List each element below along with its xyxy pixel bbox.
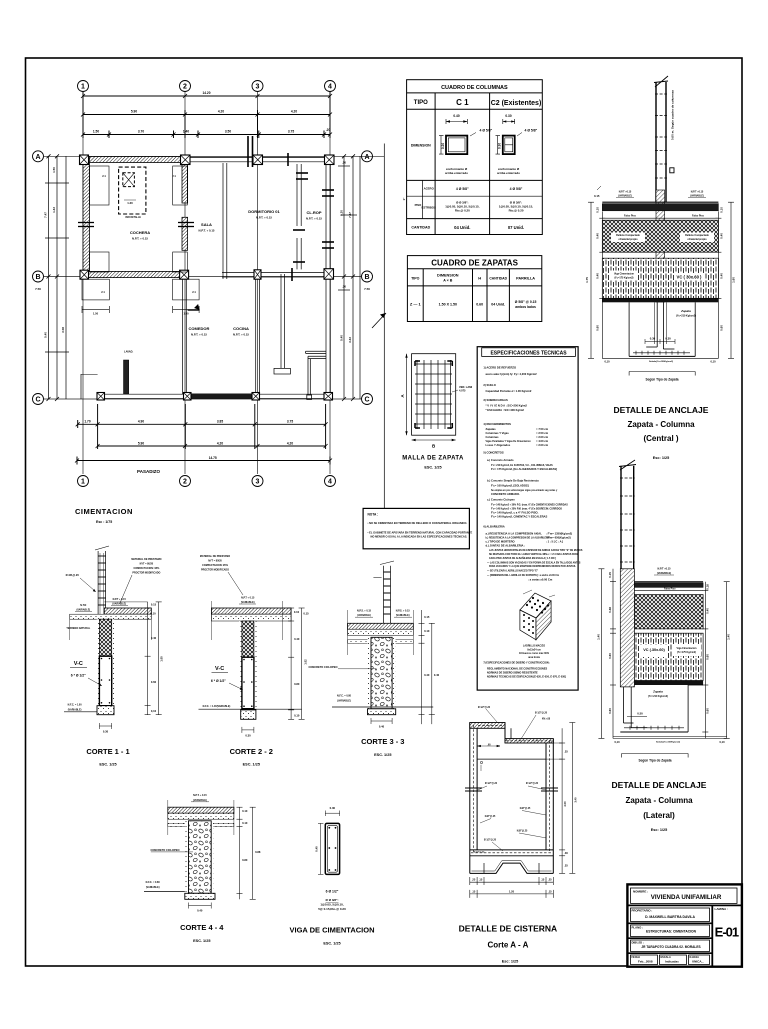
svg-text:Se emplea en pre sobrecargas v: Se emplea en pre sobrecargas vigas pre-a… bbox=[491, 489, 558, 492]
svg-text:Zapata: Zapata bbox=[680, 309, 691, 313]
svg-text:F'c= 140 Kg/cm2, CIMENTAC Y: F'c= 140 Kg/cm2, CIMENTAC Y ESCALERAS bbox=[491, 514, 547, 518]
svg-text:1.43: 1.43 bbox=[52, 207, 56, 213]
svg-text:N.P.T. + 0.15: N.P.T. + 0.15 bbox=[233, 333, 249, 337]
svg-text:acero adec fy(min) fy: Fy=: acero adec fy(min) fy: Fy= 4,200 Kg/cm2 bbox=[486, 372, 538, 376]
svg-text:A × B: A × B bbox=[443, 279, 453, 283]
svg-text:CUADRO DE ZAPATAS: CUADRO DE ZAPATAS bbox=[431, 259, 518, 268]
svg-text:4) RECUBRIMIENTOS: 4) RECUBRIMIENTOS bbox=[483, 422, 511, 426]
svg-text:0.15: 0.15 bbox=[151, 603, 157, 607]
svg-text:1: 1 bbox=[81, 479, 85, 486]
svg-text:5.40: 5.40 bbox=[44, 332, 48, 338]
svg-text:ESPECIFICACIONES TECNICAS: ESPECIFICACIONES TECNICAS bbox=[490, 350, 567, 356]
svg-text:(VARIABLE): (VARIABLE) bbox=[396, 614, 410, 617]
svg-text:0.40: 0.40 bbox=[706, 608, 710, 614]
svg-text:0.16: 0.16 bbox=[706, 584, 710, 590]
svg-text:c.) Concreto Ciclopeo: c.) Concreto Ciclopeo bbox=[487, 498, 515, 502]
svg-text:0.40: 0.40 bbox=[151, 636, 157, 640]
svg-text:18 Huecos como max 30%: 18 Huecos como max 30% bbox=[519, 652, 550, 655]
svg-text:3.70: 3.70 bbox=[138, 130, 144, 134]
svg-text:= 2.00 cm: = 2.00 cm bbox=[536, 435, 549, 439]
svg-text:4 Ø 5/8": 4 Ø 5/8" bbox=[456, 187, 469, 191]
svg-text:6 Ø 1/2": 6 Ø 1/2" bbox=[326, 890, 339, 894]
svg-text:VIVIENDA UNIFAMILIAR: VIVIENDA UNIFAMILIAR bbox=[651, 894, 722, 901]
svg-text:.30: .30 bbox=[564, 851, 568, 855]
svg-text:ESC. 1/25: ESC. 1/25 bbox=[99, 763, 116, 767]
svg-text:14.20: 14.20 bbox=[203, 91, 211, 95]
svg-text:Falso Piso: Falso Piso bbox=[692, 215, 704, 218]
svg-text:Según Tipo de Zapata: Según Tipo de Zapata bbox=[645, 378, 678, 382]
svg-text:Esc: 1/25: Esc: 1/25 bbox=[502, 960, 518, 964]
svg-text:CONCRETO CICLOPEO: CONCRETO CICLOPEO bbox=[150, 848, 179, 852]
svg-text:0.30: 0.30 bbox=[505, 114, 511, 118]
svg-text:PLANO :: PLANO : bbox=[632, 926, 644, 930]
svg-text:VIGA DE CIMENTACION: VIGA DE CIMENTACION bbox=[289, 926, 374, 935]
svg-text:4.20: 4.20 bbox=[287, 441, 293, 445]
svg-text:Según Tipo de Zapata: Según Tipo de Zapata bbox=[638, 759, 671, 763]
svg-text:Rto.@ 0.20: Rto.@ 0.20 bbox=[455, 209, 470, 213]
svg-text:CONCRETO CICLOPEO: CONCRETO CICLOPEO bbox=[308, 665, 337, 669]
svg-text:5.20: 5.20 bbox=[340, 210, 344, 216]
svg-text:N.P.T +0.15: N.P.T +0.15 bbox=[691, 191, 704, 194]
svg-text:ESTRIBOS: ESTRIBOS bbox=[422, 206, 436, 210]
svg-text:Relleno Compactado: Relleno Compactado bbox=[685, 234, 709, 237]
svg-text:: a varias x0.00 Cm: : a varias x0.00 Cm bbox=[528, 578, 553, 582]
svg-text:N.HOJA: N.HOJA bbox=[690, 956, 700, 959]
svg-text:0.10: 0.10 bbox=[596, 207, 600, 213]
svg-text:H: H bbox=[478, 276, 481, 281]
svg-text:N.P.T + 0.15: N.P.T + 0.15 bbox=[113, 598, 127, 601]
svg-text:6 * Ø 1/2": 6 * Ø 1/2" bbox=[71, 674, 86, 678]
svg-text:LAMINA :: LAMINA : bbox=[715, 907, 728, 911]
svg-text:VER. LAMI: VER. LAMI bbox=[459, 385, 472, 389]
svg-text:C: C bbox=[364, 397, 369, 404]
svg-text:7.50: 7.50 bbox=[364, 287, 370, 291]
svg-text:DORMITORIO 01: DORMITORIO 01 bbox=[248, 209, 280, 214]
svg-text:Corte A - A: Corte A - A bbox=[487, 941, 528, 950]
svg-text:N.F.C. = 1.00: N.F.C. = 1.00 bbox=[68, 704, 83, 707]
svg-text:N.T.N: N.T.N bbox=[80, 604, 86, 607]
svg-text:VC ( 30x.60 ): VC ( 30x.60 ) bbox=[677, 275, 703, 280]
svg-text:JR TARAPOTO CUADRA 02. MORALES: JR TARAPOTO CUADRA 02. MORALES bbox=[641, 945, 700, 949]
svg-text:Rto.@ 0.20: Rto.@ 0.20 bbox=[509, 209, 524, 213]
svg-text:0.20: 0.20 bbox=[441, 143, 445, 149]
svg-text:0.10: 0.10 bbox=[150, 612, 156, 616]
svg-text:COMPACTACION: 95%: COMPACTACION: 95% bbox=[202, 564, 229, 567]
svg-text:3.75: 3.75 bbox=[287, 419, 293, 423]
svg-text:.15: .15 bbox=[548, 889, 552, 893]
svg-text:CIMENTACION: CIMENTACION bbox=[75, 507, 133, 516]
svg-text:CORTE 4 - 4: CORTE 4 - 4 bbox=[180, 923, 224, 932]
svg-text:0,10: 0,10 bbox=[294, 714, 300, 718]
svg-text:.20: .20 bbox=[342, 161, 347, 165]
svg-text:area bruta: area bruta bbox=[528, 656, 540, 659]
svg-text:4.20: 4.20 bbox=[218, 110, 224, 114]
svg-text:Capacidad Portante σ= 1.00: Capacidad Portante σ= 1.00 Kg/cm2 bbox=[486, 389, 532, 393]
svg-text:0.60: 0.60 bbox=[151, 680, 157, 684]
svg-text:0.15: 0.15 bbox=[424, 615, 430, 619]
svg-text:0.40: 0.40 bbox=[424, 673, 430, 677]
svg-text:1.02: 1.02 bbox=[304, 659, 308, 665]
svg-text:DETALLE DE ANCLAJE: DETALLE DE ANCLAJE bbox=[612, 780, 707, 790]
svg-text:F'c= 100 Kg/cm2, [SOLADOS]: F'c= 100 Kg/cm2, [SOLADOS] bbox=[491, 483, 529, 487]
svg-text:arriba enterrado: arriba enterrado bbox=[445, 171, 468, 175]
svg-text:ambos lados: ambos lados bbox=[515, 305, 536, 309]
svg-text:Feb...2008: Feb...2008 bbox=[638, 960, 653, 964]
svg-text:NOTA :: NOTA : bbox=[368, 513, 379, 517]
svg-text:(VARIABLE): (VARIABLE) bbox=[76, 609, 90, 612]
svg-text:Z — 1: Z — 1 bbox=[410, 302, 422, 307]
svg-text:CADA PISO JUNTAS DE ALBAÑILERI: CADA PISO JUNTAS DE ALBAÑILERIA EN ESCAL… bbox=[489, 557, 556, 560]
svg-text:CANTIDAD: CANTIDAD bbox=[411, 226, 430, 230]
svg-text:N.P.S. + 0.15: N.P.S. + 0.15 bbox=[357, 610, 372, 613]
svg-text:0.60: 0.60 bbox=[706, 654, 710, 660]
svg-text:VER DETALLE: VER DETALLE bbox=[125, 216, 141, 219]
svg-text:07 Unid.: 07 Unid. bbox=[508, 225, 524, 230]
svg-text:.25: .25 bbox=[564, 750, 568, 754]
svg-text:: 1 : 5 [ C : A ]: : 1 : 5 [ C : A ] bbox=[546, 540, 563, 544]
svg-text:2) SUELO: 2) SUELO bbox=[483, 383, 495, 387]
svg-text:VC (.30x.60): VC (.30x.60) bbox=[643, 648, 665, 652]
svg-text:0.40: 0.40 bbox=[596, 233, 600, 239]
svg-text:3.50: 3.50 bbox=[225, 130, 231, 134]
svg-text:(f'c=210 Kg/cm2): (f'c=210 Kg/cm2) bbox=[648, 695, 668, 698]
svg-text:.25: .25 bbox=[548, 878, 552, 882]
svg-text:CL.ROP: CL.ROP bbox=[306, 210, 321, 215]
svg-text:a.) Concreto Armado: a.) Concreto Armado bbox=[487, 458, 514, 462]
svg-text:F'c= 140 Kg/cm2, c a 4" F: F'c= 140 Kg/cm2, c a 4" FALSO PISO. bbox=[491, 510, 539, 514]
svg-text:Esc: 1/25: Esc: 1/25 bbox=[653, 456, 669, 460]
svg-text:ESC. 1/25: ESC. 1/25 bbox=[323, 942, 340, 946]
svg-text:F'c= 175 Kg/cm2, [En ALIGER: F'c= 175 Kg/cm2, [En ALIGERADOS Y ESCALE… bbox=[491, 467, 557, 471]
svg-text:0.88: 0.88 bbox=[255, 850, 261, 854]
svg-text:NYT = 80/20: NYT = 80/20 bbox=[208, 560, 222, 563]
svg-text:COCINA: COCINA bbox=[233, 326, 249, 331]
svg-text:Ø 1/2"@.20: Ø 1/2"@.20 bbox=[526, 783, 539, 785]
svg-text:3.40: 3.40 bbox=[573, 797, 577, 803]
svg-text:— [DIMENSION DEL LADRILLO DE S: — [DIMENSION DEL LADRILLO DE SOPORTE] : … bbox=[487, 574, 559, 577]
svg-text:— LAS COLUMNAS SON VACIADAS Y: — LAS COLUMNAS SON VACIADAS Y EN FORMA D… bbox=[487, 561, 581, 564]
svg-text:0.30: 0.30 bbox=[650, 337, 656, 341]
svg-text:0.30: 0.30 bbox=[665, 337, 671, 341]
svg-text:4 Ø 5/8": 4 Ø 5/8" bbox=[525, 129, 538, 133]
svg-text:0.15: 0.15 bbox=[303, 612, 309, 616]
svg-text:B: B bbox=[364, 274, 369, 281]
svg-text:(Central ): (Central ) bbox=[643, 434, 678, 443]
svg-text:0.80: 0.80 bbox=[294, 682, 300, 686]
svg-text:.25: .25 bbox=[472, 878, 476, 882]
svg-text:(VARIABLE): (VARIABLE) bbox=[337, 700, 351, 703]
svg-text:b.) RESISTENCIA A LA COMPRESIO: b.) RESISTENCIA A LA COMPRESION DE LA AL… bbox=[486, 537, 551, 540]
svg-text:7) ESPECIFICACIONES DE DISEÑ: 7) ESPECIFICACIONES DE DISEÑO Y CONSTRUC… bbox=[483, 662, 550, 665]
svg-text:0.30: 0.30 bbox=[245, 734, 251, 738]
svg-text:7.47: 7.47 bbox=[44, 212, 48, 218]
svg-text:N.P.T + 0.15: N.P.T + 0.15 bbox=[241, 597, 255, 600]
svg-text:NYT = 80/20: NYT = 80/20 bbox=[140, 563, 154, 566]
svg-text:3.08: 3.08 bbox=[61, 327, 65, 333]
svg-text:Ø 3/8,@.20: Ø 3/8,@.20 bbox=[66, 573, 80, 577]
svg-text:(VARIABLE): (VARIABLE) bbox=[690, 195, 704, 198]
svg-text:2.1: 2.1 bbox=[102, 174, 106, 178]
svg-text:* V I V I E N D A: * V I V I E N D A : S/C=250 Kg/m2 bbox=[486, 404, 528, 408]
svg-text:N.F.C. = 1.00(VARIABLE): N.F.C. = 1.00(VARIABLE) bbox=[203, 705, 231, 708]
svg-text:N.P.T. + 0.15: N.P.T. + 0.15 bbox=[306, 217, 322, 221]
svg-text:3: 3 bbox=[256, 479, 260, 486]
svg-text:ESTRUCTURAS: CIMENTACION: ESTRUCTURAS: CIMENTACION bbox=[646, 930, 697, 934]
svg-text:1.20: 1.20 bbox=[509, 889, 515, 893]
svg-text:14.75: 14.75 bbox=[209, 456, 217, 460]
svg-text:0.60 m. Según cuadro de co: 0.60 m. Según cuadro de columnas bbox=[671, 90, 675, 141]
svg-text:1: 1 bbox=[81, 84, 85, 91]
svg-text:0.80: 0.80 bbox=[242, 858, 248, 862]
svg-text:N.P.T +0.15: N.P.T +0.15 bbox=[657, 568, 671, 571]
svg-text:1.50 X 1.50: 1.50 X 1.50 bbox=[439, 303, 457, 307]
svg-text:V-C: V-C bbox=[74, 661, 83, 667]
svg-text:5.90: 5.90 bbox=[138, 441, 144, 445]
svg-text:0.60: 0.60 bbox=[596, 325, 600, 331]
svg-text:0.40: 0.40 bbox=[720, 273, 724, 279]
svg-text:c/material propio: c/material propio bbox=[618, 238, 638, 241]
svg-text:A: A bbox=[35, 154, 40, 161]
svg-text:0,10: 0,10 bbox=[604, 360, 610, 364]
svg-text:(VARIABLE): (VARIABLE) bbox=[68, 709, 82, 712]
svg-text:1.40: 1.40 bbox=[597, 634, 601, 640]
svg-text:(f'c=175 Kg/cm2): (f'c=175 Kg/cm2) bbox=[615, 277, 634, 280]
svg-text:C 1: C 1 bbox=[456, 98, 469, 107]
svg-text:1.70: 1.70 bbox=[84, 419, 90, 423]
svg-text:Ø Ø 3/8":: Ø Ø 3/8": bbox=[326, 898, 339, 902]
svg-text:0.60: 0.60 bbox=[720, 325, 724, 331]
svg-text:0,10: 0,10 bbox=[151, 709, 157, 713]
svg-text:9x13x24 cm: 9x13x24 cm bbox=[527, 648, 540, 651]
svg-text:1.40: 1.40 bbox=[727, 634, 731, 640]
svg-text:0.40: 0.40 bbox=[434, 673, 440, 677]
svg-text:0.60: 0.60 bbox=[476, 303, 483, 307]
svg-text:5) CONCRETOS: 5) CONCRETOS bbox=[483, 451, 503, 455]
svg-text:N.F.C. = 0.80: N.F.C. = 0.80 bbox=[146, 881, 161, 884]
svg-text:1.20: 1.20 bbox=[127, 201, 133, 205]
svg-text:D. MAXWELL BARTRA DAVILA: D. MAXWELL BARTRA DAVILA bbox=[645, 915, 695, 919]
svg-text:Falso Piso: Falso Piso bbox=[664, 589, 676, 591]
svg-text:LAS JUNTAS HORIZONTALES DE ESP: LAS JUNTAS HORIZONTALES DE ESPESOR DE AM… bbox=[489, 549, 583, 552]
svg-text:2.00: 2.00 bbox=[563, 801, 567, 807]
svg-text:ESC. 1/25: ESC. 1/25 bbox=[243, 763, 260, 767]
svg-text:N.Ø"@.25: N.Ø"@.25 bbox=[485, 816, 496, 818]
svg-text:Zapata: Zapata bbox=[652, 690, 663, 694]
svg-text:0.40: 0.40 bbox=[379, 725, 385, 729]
svg-text:MATERIAL DE PRESTAMO: MATERIAL DE PRESTAMO bbox=[200, 555, 230, 558]
svg-text:ESCALA: ESCALA bbox=[661, 956, 671, 959]
svg-text:(VARIABLE): (VARIABLE) bbox=[357, 614, 371, 617]
svg-text:CORTE 2 - 2: CORTE 2 - 2 bbox=[230, 747, 273, 756]
svg-text:Columnas Y Vigas: Columnas Y Vigas bbox=[486, 431, 510, 435]
svg-text:= 7.50 cm: = 7.50 cm bbox=[536, 427, 549, 431]
svg-text:2: 2 bbox=[183, 84, 187, 91]
svg-text:Esc : 1/75: Esc : 1/75 bbox=[96, 520, 112, 524]
svg-text:MATERIAL DE PRESTAMO: MATERIAL DE PRESTAMO bbox=[131, 558, 161, 561]
svg-text:CUADRO DE COLUMNAS: CUADRO DE COLUMNAS bbox=[441, 85, 508, 91]
svg-text:0.30: 0.30 bbox=[498, 143, 502, 149]
svg-text:(VARIABLE): (VARIABLE) bbox=[618, 195, 632, 198]
svg-text:Ø 5/8" @ 0.15: Ø 5/8" @ 0.15 bbox=[515, 300, 537, 304]
svg-text:N.P.T. + 0.15: N.P.T. + 0.15 bbox=[191, 333, 207, 337]
svg-text:— SE UTILIZARA LADRILLO MACIZO: — SE UTILIZARA LADRILLO MACIZO TIPO "E" bbox=[487, 570, 538, 573]
svg-text:1.50: 1.50 bbox=[183, 312, 189, 316]
svg-text:1.50: 1.50 bbox=[93, 130, 99, 134]
svg-text:A: A bbox=[364, 154, 369, 161]
svg-text:0.40: 0.40 bbox=[720, 233, 724, 239]
svg-text:Ø 1/2"@.20: Ø 1/2"@.20 bbox=[484, 840, 497, 842]
svg-text:04 Unid.: 04 Unid. bbox=[491, 303, 505, 307]
svg-text:0.10: 0.10 bbox=[242, 809, 248, 813]
svg-text:a.) RESISTENCIA A LA COMPRE: a.) RESISTENCIA A LA COMPRESION AXIAL bbox=[486, 532, 543, 536]
svg-text:Relleno Compactado: Relleno Compactado bbox=[616, 234, 640, 237]
svg-text:4.20: 4.20 bbox=[291, 110, 297, 114]
svg-text:Vigas Peraltadas Y Vigas De Ci: Vigas Peraltadas Y Vigas De Cimentacion bbox=[486, 440, 532, 443]
svg-text:FECHA: FECHA bbox=[632, 956, 641, 959]
svg-text:2: 2 bbox=[183, 479, 187, 486]
svg-text:1@0.05, 5@0.10,: 1@0.05, 5@0.10, bbox=[320, 903, 344, 907]
svg-text:(VARIABLE): (VARIABLE) bbox=[657, 572, 671, 575]
svg-text:LAVAD.: LAVAD. bbox=[124, 350, 134, 354]
svg-text:• NO SE CIMENTARA EN TERR: • NO SE CIMENTARA EN TERRENO DE RELLENO … bbox=[368, 521, 468, 525]
svg-text:1°: 1° bbox=[402, 198, 406, 201]
svg-text:4 Ø 5/8": 4 Ø 5/8" bbox=[480, 129, 493, 133]
svg-text:: F'm= 1350(Kg/cm2): : F'm= 1350(Kg/cm2) bbox=[546, 532, 572, 536]
svg-text:(VARIABLE): (VARIABLE) bbox=[112, 603, 126, 606]
svg-text:7.50: 7.50 bbox=[35, 287, 41, 291]
svg-text:5.90: 5.90 bbox=[131, 110, 137, 114]
svg-text:3) SOBRECARGAS: 3) SOBRECARGAS bbox=[483, 398, 508, 402]
svg-text:SALA: SALA bbox=[201, 222, 212, 227]
svg-text:0.10: 0.10 bbox=[294, 610, 300, 614]
svg-text:N.Ø"@.25: N.Ø"@.25 bbox=[517, 831, 528, 833]
svg-text:Ø 1/2"@.20: Ø 1/2"@.20 bbox=[474, 851, 485, 853]
svg-text:1.40: 1.40 bbox=[183, 130, 189, 134]
svg-text:0.10: 0.10 bbox=[242, 821, 248, 825]
svg-text:Ø 1/2"@.20: Ø 1/2"@.20 bbox=[478, 707, 491, 709]
svg-text:0.10: 0.10 bbox=[720, 207, 724, 213]
svg-text:PARRILLA: PARRILLA bbox=[516, 277, 535, 281]
svg-text:0.30: 0.30 bbox=[330, 806, 336, 810]
svg-text:3: 3 bbox=[256, 84, 260, 91]
svg-text:5@ 0.15,Rto.@ 0.20: 5@ 0.15,Rto.@ 0.20 bbox=[318, 907, 346, 911]
svg-text:4.20: 4.20 bbox=[217, 441, 223, 445]
svg-text:3.75: 3.75 bbox=[288, 130, 294, 134]
svg-text:0.30: 0.30 bbox=[103, 730, 109, 734]
svg-text:ACERO: ACERO bbox=[424, 187, 435, 191]
svg-text:Zapatas: Zapatas bbox=[486, 427, 497, 431]
svg-text:0.10: 0.10 bbox=[424, 629, 430, 633]
svg-text:Losas Y Aligerados: Losas Y Aligerados bbox=[486, 443, 511, 447]
svg-text:= 4.00 cm: = 4.00 cm bbox=[536, 439, 549, 443]
svg-text:3.43: 3.43 bbox=[348, 337, 352, 343]
svg-text:.30: .30 bbox=[342, 285, 347, 289]
svg-text:N.P.S. + 0.15: N.P.S. + 0.15 bbox=[396, 610, 411, 613]
svg-text:• EL GABINETE DE APOYARA: • EL GABINETE DE APOYARA EN TERRENO NATU… bbox=[368, 531, 473, 535]
svg-text:5.40: 5.40 bbox=[340, 335, 344, 341]
svg-text:.15: .15 bbox=[472, 889, 476, 893]
svg-text:TERRENO NATURAL: TERRENO NATURAL bbox=[66, 627, 90, 630]
svg-text:(VARIABLE): (VARIABLE) bbox=[193, 799, 207, 802]
svg-text:NV.+.08: NV.+.08 bbox=[542, 719, 551, 721]
svg-text:C2 (Existentes): C2 (Existentes) bbox=[491, 100, 542, 107]
svg-text:UNICA...: UNICA... bbox=[692, 960, 704, 964]
svg-text:COMPACTACION: 95%: COMPACTACION: 95% bbox=[134, 567, 161, 570]
svg-text:b.) Concreto Simple De Baja: b.) Concreto Simple De Baja Resistencia bbox=[487, 478, 539, 482]
svg-text:CORTE 1 - 1: CORTE 1 - 1 bbox=[86, 747, 129, 756]
svg-text:N.P.T. + 0.15: N.P.T. + 0.15 bbox=[199, 229, 215, 233]
svg-text:F'c= 140 Kg/cm2 + 25% P.M. (ma: F'c= 140 Kg/cm2 + 25% P.M. (max. 4") En … bbox=[491, 507, 562, 510]
svg-text:= 2.50 cm: = 2.50 cm bbox=[536, 431, 549, 435]
svg-text:= 2.00 cm: = 2.00 cm bbox=[536, 443, 549, 447]
svg-text:0.48: 0.48 bbox=[608, 607, 612, 613]
svg-text:2.1: 2.1 bbox=[192, 290, 196, 294]
svg-text:Zapata - Columna: Zapata - Columna bbox=[625, 796, 693, 805]
svg-text:0,10: 0,10 bbox=[719, 740, 725, 744]
svg-text:F'c= 140 Kg/cm2 + 30% P.G. (ma: F'c= 140 Kg/cm2 + 30% P.G. (max. 6") En … bbox=[491, 503, 568, 506]
svg-text:1) ACERO DE REFUERZO: 1) ACERO DE REFUERZO bbox=[483, 366, 516, 370]
svg-text:0.40: 0.40 bbox=[453, 114, 459, 118]
svg-text:SE REVISARA CON TODO EL LARGO: SE REVISARA CON TODO EL LARGO VERTICAL M… bbox=[489, 553, 579, 556]
svg-text:6 * Ø 1/2": 6 * Ø 1/2" bbox=[211, 679, 226, 683]
svg-text:DETALLE DE ANCLAJE: DETALLE DE ANCLAJE bbox=[614, 405, 709, 415]
svg-text:N.P.T +0.15: N.P.T +0.15 bbox=[619, 191, 632, 194]
svg-text:2.1: 2.1 bbox=[172, 174, 176, 178]
svg-text:PROCTOR MODIFICADO: PROCTOR MODIFICADO bbox=[132, 572, 160, 575]
svg-text:0.50: 0.50 bbox=[637, 712, 643, 716]
svg-text:CORTE 3 - 3: CORTE 3 - 3 bbox=[361, 737, 404, 746]
svg-text:NORMAS DE DISEÑO SISMO RES: NORMAS DE DISEÑO SISMO RESISTENTE bbox=[487, 672, 538, 675]
svg-text:1.50: 1.50 bbox=[52, 167, 56, 173]
svg-text:0.15: 0.15 bbox=[594, 194, 600, 198]
svg-text:1.75: 1.75 bbox=[585, 277, 589, 283]
svg-text:DETALLE DE CISTERNA: DETALLE DE CISTERNA bbox=[459, 924, 558, 934]
svg-text:7.47: 7.47 bbox=[348, 212, 352, 218]
svg-text:.15: .15 bbox=[541, 878, 545, 882]
svg-text:PROCTOR MODIFICADO: PROCTOR MODIFICADO bbox=[201, 569, 229, 572]
svg-text:(f'c=210 Kg/cm2): (f'c=210 Kg/cm2) bbox=[676, 315, 696, 318]
svg-text:Indicadas: Indicadas bbox=[665, 960, 679, 964]
svg-text:0.60: 0.60 bbox=[706, 708, 710, 714]
svg-text:0.40: 0.40 bbox=[315, 846, 319, 852]
svg-text:: F'm= 650(Kg/cm2): : F'm= 650(Kg/cm2) bbox=[546, 536, 571, 540]
svg-text:PASADIZO: PASADIZO bbox=[137, 469, 160, 474]
svg-text:1.60: 1.60 bbox=[732, 277, 736, 283]
svg-text:NORMAS TECNICAS DE EDIFICAC: NORMAS TECNICAS DE EDIFICACION [E-020, E… bbox=[487, 676, 566, 679]
svg-text:(f'c=175 Kg/cm2): (f'c=175 Kg/cm2) bbox=[677, 651, 696, 654]
svg-text:ESC. 1/25: ESC. 1/25 bbox=[193, 939, 210, 943]
svg-text:Esc: 1/25: Esc: 1/25 bbox=[651, 828, 667, 832]
svg-text:REGLAMENTO NACIONAL DE CONS: REGLAMENTO NACIONAL DE CONSTRUCCIONES bbox=[487, 668, 548, 671]
svg-text:4 Ø 5/8": 4 Ø 5/8" bbox=[510, 187, 523, 191]
svg-text:1.50: 1.50 bbox=[93, 312, 99, 316]
svg-text:0,10: 0,10 bbox=[710, 360, 716, 364]
svg-text:arriba enterrado: arriba enterrado bbox=[497, 171, 520, 175]
svg-text:N.P.T. + 0.15: N.P.T. + 0.15 bbox=[256, 216, 272, 220]
svg-text:N.F.C. = 0.80: N.F.C. = 0.80 bbox=[337, 695, 352, 698]
svg-text:DIMENSION: DIMENSION bbox=[411, 144, 431, 148]
svg-text:PARA VACIADOS Y LA QUE MANTIEN: PARA VACIADOS Y LA QUE MANTIENE DESPREND… bbox=[489, 565, 576, 568]
svg-text:N.P.T. + 0.15: N.P.T. + 0.15 bbox=[193, 794, 207, 797]
svg-text:1.00: 1.00 bbox=[160, 656, 164, 662]
svg-text:Solado(f'c=100Kg/cm2): Solado(f'c=100Kg/cm2) bbox=[649, 361, 673, 363]
svg-text:NOMBRE :: NOMBRE : bbox=[633, 890, 648, 894]
svg-text:.20: .20 bbox=[326, 128, 331, 132]
svg-text:(VARIABLE): (VARIABLE) bbox=[241, 601, 255, 604]
svg-text:MALLA DE ZAPATA: MALLA DE ZAPATA bbox=[402, 456, 464, 462]
svg-text:N.Ø"@.25: N.Ø"@.25 bbox=[520, 808, 531, 810]
svg-text:Falso Piso: Falso Piso bbox=[624, 215, 636, 218]
